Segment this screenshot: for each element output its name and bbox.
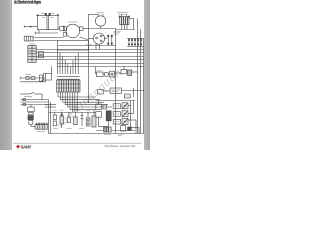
sensor: speed bbox=[74, 112, 78, 125]
harness drop wires bbox=[57, 49, 78, 74]
diode block bbox=[121, 126, 139, 134]
fusible link block FB1 bbox=[117, 12, 133, 29]
svg-text:Shop Manual - November 2011: Shop Manual - November 2011 bbox=[105, 144, 136, 148]
inline connector pair bbox=[38, 52, 43, 58]
SANY logo bbox=[16, 144, 32, 149]
wiper circuit row bbox=[95, 66, 138, 77]
connector CN2 bbox=[31, 123, 47, 131]
relay K1 bbox=[113, 103, 130, 109]
main vertical feed wire 2 bbox=[115, 28, 117, 133]
engine frame bbox=[58, 41, 89, 51]
battery B1 bbox=[37, 13, 59, 30]
fuse row F3-F8 bbox=[127, 38, 144, 47]
relay K2 bbox=[113, 111, 133, 117]
fuel pump unit bbox=[98, 88, 144, 98]
wire bottom bus bbox=[49, 133, 144, 135]
flasher unit bbox=[96, 101, 111, 127]
battery output relay bbox=[58, 26, 64, 31]
wire battery negative lead bbox=[24, 25, 37, 27]
pressure switch bbox=[20, 92, 42, 99]
relay riser wires bbox=[131, 101, 136, 134]
right feed wire A bbox=[137, 18, 139, 133]
wire riser left2 bbox=[50, 102, 52, 134]
sensor: water temp bbox=[53, 112, 56, 126]
harness elbow wires bbox=[45, 92, 112, 112]
horn circuit bbox=[20, 74, 45, 82]
alternator G1 bbox=[89, 13, 106, 28]
flasher hatched block bbox=[104, 127, 112, 134]
monitor panel stack bbox=[28, 104, 35, 126]
wire sensor top bus bbox=[49, 112, 97, 114]
wire bus 6 bbox=[58, 66, 144, 68]
main vertical feed wire bbox=[88, 14, 90, 103]
controller connector CN3 bbox=[57, 76, 80, 92]
sensor: oil pressure bbox=[67, 112, 70, 123]
svg-text:SANY: SANY bbox=[21, 144, 32, 149]
wire bus 4 bbox=[36, 59, 143, 61]
wire bus 5 bbox=[58, 63, 144, 65]
wire bus 3 bbox=[36, 56, 143, 58]
sensor: pressure sw 2 bbox=[81, 112, 84, 126]
wire riser left bbox=[48, 100, 50, 134]
wire bus 1 bbox=[36, 49, 143, 51]
relay K3 bbox=[113, 119, 136, 125]
connector CN1 bbox=[28, 44, 36, 62]
svg-text:19.2 Electrical circuit diagra: 19.2 Electrical circuit diagram bbox=[14, 0, 41, 5]
footer rule bbox=[13, 142, 141, 145]
wire bus 2 bbox=[36, 52, 143, 54]
fuse F2 bbox=[111, 35, 113, 45]
ground note bbox=[118, 134, 125, 136]
right feed wire C bbox=[143, 38, 145, 134]
sensor: solenoid A bbox=[86, 112, 90, 126]
right feed wire B bbox=[140, 29, 142, 133]
wire to starter positive bbox=[33, 37, 63, 39]
sensor labels bbox=[53, 110, 90, 128]
wire relay bank top bus bbox=[96, 100, 136, 102]
ignition switch S2 bbox=[89, 33, 108, 49]
wire mid link bbox=[58, 44, 116, 45]
wire links to bus bbox=[116, 25, 136, 30]
starter motor M1 bbox=[63, 22, 88, 40]
sensor: solenoid B bbox=[92, 110, 96, 127]
wire to frame bbox=[33, 40, 58, 42]
wire alternator bus bbox=[89, 28, 116, 30]
note text block bbox=[113, 31, 121, 34]
battery disconnect switch S1 bbox=[24, 36, 33, 41]
monitor feed wires bbox=[20, 99, 48, 106]
fuse F1 bbox=[107, 35, 109, 45]
wire battery bottom link bbox=[35, 30, 58, 34]
wire bottom bus 2 bbox=[96, 130, 135, 132]
relay box RB bbox=[41, 66, 51, 80]
sensor: fuel level bbox=[60, 112, 64, 128]
